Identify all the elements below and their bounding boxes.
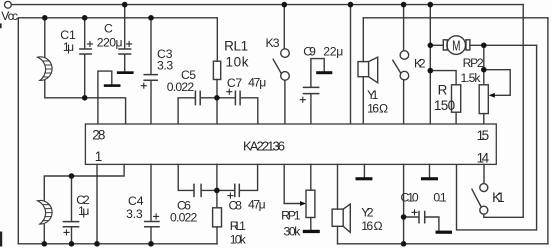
resistor RL1 (bottom) bbox=[213, 208, 222, 227]
wire Y1 top to right edge bbox=[363, 17, 548, 19]
svg-text:C7: C7 bbox=[227, 76, 242, 90]
wire K3 bottom to IC bbox=[284, 80, 286, 124]
junction common rail / C3 bbox=[148, 15, 154, 21]
wire C10 left bbox=[404, 216, 419, 218]
capacitor C1 plates bbox=[80, 49, 91, 54]
wire motor right to loop bbox=[470, 44, 537, 46]
wire C2 bottom bbox=[71, 227, 73, 244]
wire K2 pin to rail bbox=[403, 164, 405, 243]
svg-text:RP2: RP2 bbox=[463, 56, 484, 70]
svg-text:3.3: 3.3 bbox=[157, 58, 173, 72]
svg-text:16 Ω: 16 Ω bbox=[361, 219, 382, 233]
junction motor left / Vcc bbox=[428, 43, 434, 49]
junction ground rail / K2 branch bbox=[401, 241, 407, 247]
wire C 220u bottom to ground bbox=[124, 55, 126, 72]
wire Vcc to IC pin bbox=[350, 5, 352, 124]
svg-text:RP1: RP1 bbox=[281, 209, 301, 223]
wire RP1 wiper to IC bbox=[284, 164, 301, 203]
wire Y1 bottom to IC bbox=[362, 77, 364, 124]
svg-text:1μ: 1μ bbox=[63, 40, 74, 54]
svg-text:47μ: 47μ bbox=[248, 75, 266, 89]
junction ground rail / IC pin bbox=[94, 241, 100, 247]
svg-text:0.022: 0.022 bbox=[170, 211, 198, 225]
junction Vcc rail / motor branch bbox=[428, 2, 434, 8]
Vcc terminal bbox=[5, 1, 12, 8]
ground at C9 bbox=[316, 71, 332, 74]
plus C8 bbox=[228, 193, 233, 198]
wire C6 left to IC bbox=[178, 164, 193, 190]
resistor R 150 bbox=[452, 85, 461, 112]
switch K2 bbox=[400, 51, 409, 60]
motor M bbox=[447, 36, 466, 55]
arrowhead RP1 wiper bbox=[300, 201, 306, 206]
wire K2 bottom to IC bbox=[403, 80, 405, 124]
wire right edge bbox=[547, 18, 549, 244]
wire IC gnd stub a bbox=[363, 164, 365, 177]
wire crescent1 bottom / node to IC bbox=[45, 79, 126, 124]
wire bottom rail left segment bbox=[18, 243, 217, 245]
svg-text:1μ: 1μ bbox=[78, 204, 89, 218]
polarity marks bbox=[64, 41, 417, 235]
junction common rail / C1 bbox=[82, 15, 88, 21]
svg-text:K1: K1 bbox=[492, 190, 505, 205]
switch K1 bbox=[480, 184, 488, 192]
junction Vcc rail / C 220u bbox=[122, 2, 128, 8]
junction Vcc rail / K2 bbox=[401, 2, 407, 8]
plus C10 bbox=[412, 210, 417, 215]
magnetic head crescent 2 bbox=[38, 200, 53, 224]
wire IC pin gnd-L bbox=[98, 71, 112, 124]
ground at C10 bbox=[436, 231, 453, 234]
wire node to C8 bbox=[217, 189, 234, 191]
wire R bottom to IC bbox=[455, 112, 457, 124]
svg-text:K2: K2 bbox=[414, 57, 426, 71]
junction node head B2 / C2 top bbox=[69, 173, 75, 179]
capacitor C4 plates bbox=[145, 222, 159, 227]
wire C5 right to node bbox=[201, 97, 218, 99]
wire RP1 bottom to ground bbox=[310, 218, 312, 230]
svg-text:Y1: Y1 bbox=[367, 88, 379, 102]
wire C2 top bbox=[71, 176, 73, 221]
junction C10 tap bbox=[401, 214, 407, 220]
ground stub b bbox=[421, 177, 438, 180]
wire K3 top bbox=[283, 5, 285, 49]
wire motor left bbox=[430, 44, 443, 46]
junction RP2 wiper tap bbox=[481, 67, 487, 73]
magnetic head crescent 1 bbox=[38, 57, 53, 81]
wire node to C7 bbox=[217, 97, 235, 99]
svg-text:R: R bbox=[438, 83, 448, 98]
wire crescent1 top bbox=[44, 18, 46, 59]
wire K1 bottom to right drop bbox=[484, 214, 523, 217]
wire RP1 top bbox=[310, 164, 312, 190]
wire crescent2 bottom bbox=[43, 225, 45, 244]
svg-text:0.1: 0.1 bbox=[433, 191, 446, 205]
capacitor C7 plates bbox=[235, 91, 240, 104]
svg-text:Y2: Y2 bbox=[361, 205, 374, 219]
wire C4 top bbox=[150, 164, 152, 221]
wire C 220u top bbox=[124, 5, 126, 49]
svg-text:M: M bbox=[452, 38, 460, 54]
svg-text:150: 150 bbox=[434, 98, 455, 113]
wire motor Vcc vertical bbox=[429, 5, 431, 124]
svg-text:Vcc: Vcc bbox=[1, 9, 18, 23]
wire RL1b bottom to rail bbox=[216, 227, 218, 244]
arrowhead RP2 wiper bbox=[489, 93, 495, 98]
svg-text:C8: C8 bbox=[229, 199, 243, 213]
svg-text:K3: K3 bbox=[266, 36, 280, 50]
junction ground rail / C2 bbox=[69, 241, 75, 247]
wire C5 left to IC bbox=[178, 98, 195, 124]
speaker Y2 bbox=[332, 209, 343, 226]
svg-text:0.022: 0.022 bbox=[167, 80, 195, 94]
wire RL1 top bbox=[216, 18, 218, 61]
wire motor loop bbox=[457, 45, 537, 230]
resistor RL1 (top) bbox=[213, 61, 220, 79]
svg-text:3.3: 3.3 bbox=[126, 207, 143, 221]
ground below C 220u bbox=[117, 71, 134, 74]
wire IC pin step to crescent2 bbox=[44, 164, 124, 201]
wire Y2 bottom to rail bbox=[337, 226, 339, 244]
wire C4 bottom bbox=[150, 227, 152, 244]
wire left edge down bbox=[17, 18, 19, 244]
capacitor C8 plates bbox=[235, 184, 240, 196]
junction ground rail / C4 bbox=[148, 241, 154, 247]
svg-text:C10: C10 bbox=[401, 191, 419, 205]
potentiometer RP1 body bbox=[306, 190, 315, 217]
svg-text:C4: C4 bbox=[128, 194, 144, 208]
wire Y1 top bbox=[362, 18, 364, 62]
junction common rail / head B1 bbox=[42, 15, 48, 21]
svg-text:16 Ω: 16 Ω bbox=[367, 101, 388, 115]
wire RP2 bottom to IC bbox=[483, 114, 485, 124]
wire node to IC (bottom) bbox=[216, 164, 218, 190]
plus C5-C7 node C7 bbox=[227, 89, 232, 94]
wire C3 top bbox=[150, 18, 152, 74]
wire right-side drop from top rail to K1 line bbox=[522, 5, 524, 218]
capacitor C9 plates bbox=[304, 87, 319, 93]
wire C3 bottom bbox=[150, 81, 152, 124]
capacitor C3 plates bbox=[144, 75, 157, 81]
capacitor C2 plates bbox=[63, 222, 78, 227]
wire C10 right to ground bbox=[425, 217, 439, 230]
ground stub a bbox=[356, 177, 373, 180]
IC body U1 KA22136 bbox=[85, 124, 496, 164]
wire C9 branch bbox=[311, 59, 324, 87]
plus C2 bbox=[64, 230, 69, 235]
capacitor C6 plates bbox=[194, 184, 201, 196]
svg-text:220μ: 220μ bbox=[97, 36, 123, 50]
wire RL1 bottom to node bbox=[216, 80, 218, 125]
wire IC gnd pin to rail bbox=[96, 164, 98, 243]
junction node head B1 / C1 bottom bbox=[82, 95, 88, 101]
wire C9 bottom to IC bbox=[310, 94, 312, 124]
wire C7 right to IC bbox=[241, 98, 258, 124]
junction Vcc rail / K3 bbox=[282, 2, 288, 8]
svg-text:28: 28 bbox=[92, 127, 105, 142]
svg-text:RL1: RL1 bbox=[230, 219, 246, 233]
wire C1 bottom bbox=[84, 55, 86, 98]
plus C 220u bbox=[127, 41, 132, 46]
wire second rail (common) bbox=[18, 17, 217, 19]
potentiometer RP2 body bbox=[479, 85, 488, 114]
wire IC gnd stub b bbox=[429, 164, 431, 177]
plus C1 bbox=[88, 41, 93, 46]
svg-text:1.5k: 1.5k bbox=[461, 71, 482, 85]
svg-text:47μ: 47μ bbox=[248, 197, 266, 211]
svg-text:22μ: 22μ bbox=[323, 44, 343, 58]
ground at gnd-L bbox=[104, 84, 121, 87]
capacitor C 220u plates bbox=[119, 49, 131, 54]
svg-text:30k: 30k bbox=[284, 224, 302, 238]
wire top rail Vcc bbox=[11, 4, 523, 6]
svg-text:14: 14 bbox=[477, 150, 490, 165]
svg-text:10k: 10k bbox=[226, 54, 249, 69]
wire K2 top bbox=[403, 5, 405, 51]
svg-text:C: C bbox=[104, 22, 113, 36]
wire node to RL1b bbox=[216, 190, 218, 207]
plus C4 bbox=[154, 214, 159, 219]
junction node C5-C7-RL1 bbox=[214, 95, 220, 101]
junction R 150 top bbox=[428, 68, 434, 74]
svg-text:KA22136: KA22136 bbox=[243, 138, 285, 153]
wire C8 right to IC bbox=[240, 164, 258, 190]
edge smudges bbox=[0, 23, 2, 28]
junction node C6-C8-RL1b bbox=[214, 188, 220, 194]
wire RP2 wiper loop bbox=[484, 70, 510, 96]
switch K3 bbox=[281, 49, 290, 58]
plus C9 bbox=[300, 97, 305, 102]
junction motor right / RP2 bbox=[481, 43, 487, 49]
wire RP2 top bbox=[483, 45, 485, 85]
svg-text:10k: 10k bbox=[230, 233, 247, 247]
junction ground rail / head B2 bbox=[42, 241, 48, 247]
svg-text:15: 15 bbox=[477, 128, 490, 143]
plus C3 bbox=[141, 83, 146, 88]
wire K1 top bbox=[483, 164, 485, 183]
junction Vcc rail / IC supply pin bbox=[348, 2, 354, 8]
svg-text:1: 1 bbox=[95, 149, 103, 164]
speaker Y1 bbox=[358, 62, 369, 77]
capacitor C5 plates bbox=[195, 91, 200, 104]
capacitor C10 plates bbox=[419, 212, 425, 223]
wire C6 right to node bbox=[202, 189, 217, 191]
wire bottom rail right segment bbox=[338, 243, 548, 245]
wire Y2 top bbox=[337, 164, 339, 209]
svg-text:C9: C9 bbox=[303, 45, 316, 59]
wire C1 top bbox=[84, 18, 86, 49]
wire R top bbox=[430, 71, 456, 85]
ground below RP1 bbox=[303, 230, 320, 233]
svg-text:RL1: RL1 bbox=[224, 39, 248, 54]
